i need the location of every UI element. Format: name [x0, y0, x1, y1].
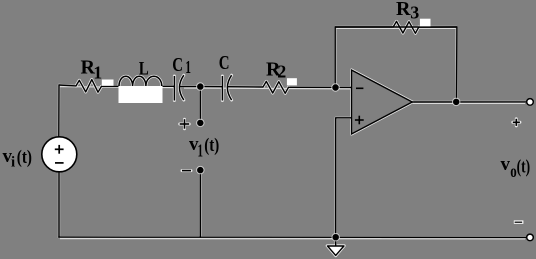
svg-text:i: i [11, 155, 15, 171]
svg-text:v: v [501, 154, 511, 175]
svg-text:(t): (t) [517, 156, 531, 177]
svg-text:C: C [219, 52, 230, 74]
svg-text:1: 1 [185, 57, 191, 77]
svg-text:3: 3 [410, 3, 419, 23]
svg-text:(t): (t) [17, 147, 32, 168]
svg-text:1: 1 [93, 62, 102, 82]
svg-text:C: C [172, 54, 183, 76]
svg-text:R: R [396, 0, 411, 20]
svg-text:(t): (t) [204, 135, 219, 156]
svg-text:L: L [139, 58, 149, 79]
svg-text:1: 1 [198, 141, 204, 161]
svg-text:2: 2 [277, 62, 286, 82]
